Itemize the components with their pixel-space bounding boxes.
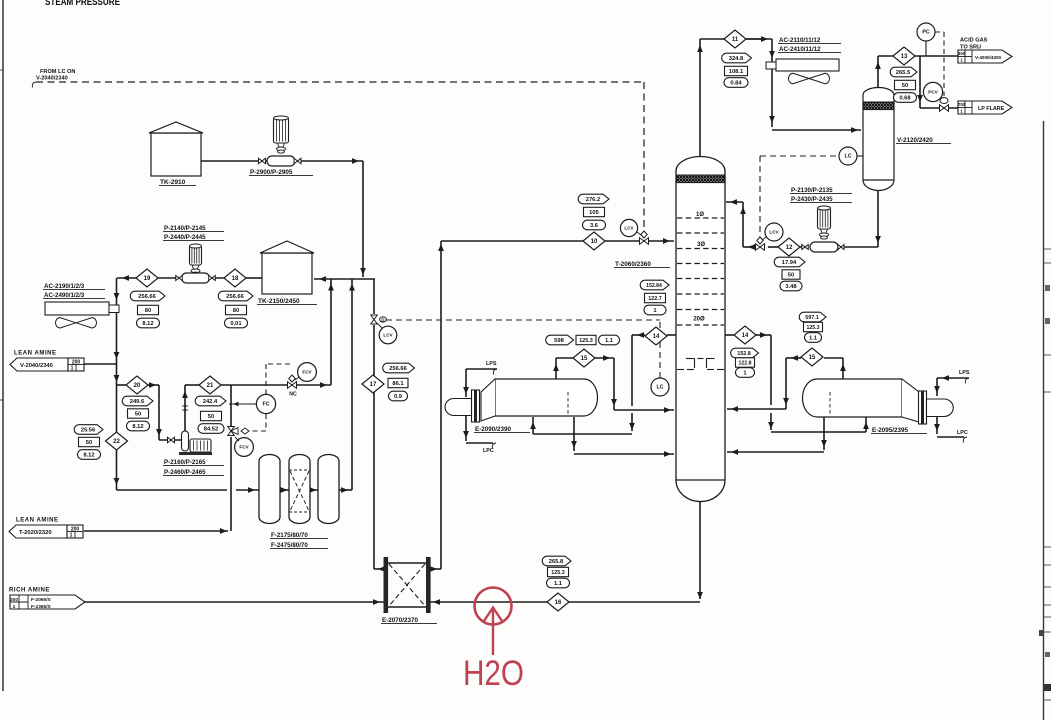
valve at P-2130 outlet: [838, 245, 844, 250]
svg-text:80: 80: [233, 308, 239, 314]
valve at P-2130 discharge: [802, 245, 809, 250]
svg-text:50: 50: [788, 273, 794, 279]
svg-text:D: D: [381, 318, 384, 323]
pump P-2160/P-2165 horizontal: [182, 431, 189, 451]
svg-text:0.01: 0.01: [230, 321, 242, 327]
valve FCV inline NC: [288, 382, 297, 389]
wire lean amine from E-2070 to LCV via FI 17: [373, 325, 375, 569]
wire FC tap: [229, 403, 258, 405]
stream data at 19: [130, 291, 165, 301]
wire rich amine main line: [85, 601, 384, 603]
valve at P-2140 discharge: [209, 276, 216, 281]
svg-text:1.1: 1.1: [605, 338, 614, 344]
svg-text:15: 15: [581, 356, 588, 362]
pump P-2900/P-2905: [274, 118, 289, 143]
svg-text:P-2160/P-2165: P-2160/P-2165: [164, 459, 206, 466]
svg-text:265.5: 265.5: [896, 70, 911, 76]
column seal pan internals: [686, 358, 695, 360]
svg-text:86.1: 86.1: [392, 381, 404, 387]
svg-text:V-2040/2340: V-2040/2340: [36, 76, 68, 82]
svg-text:F-2065/S: F-2065/S: [31, 597, 52, 603]
red H2O arrow: [492, 608, 494, 655]
stream data at 14 right: [731, 348, 759, 358]
pump P-2130/P-2135: [818, 208, 831, 229]
svg-text:AC-2190/1/2/3: AC-2190/1/2/3: [44, 283, 85, 290]
svg-text:125.3: 125.3: [579, 338, 593, 344]
wire E-2090 lean outlet to column: [573, 417, 575, 451]
wire LPS to E-2090: [493, 369, 497, 375]
stream data at 15 left row: [546, 335, 574, 345]
svg-text:LCV: LCV: [383, 333, 393, 338]
filter F-2180 vessel 2 with internals: [289, 455, 310, 524]
filter F-2170 vessel 3: [318, 455, 339, 524]
signal dashed line column LC to lean LCV: [659, 320, 661, 378]
svg-text:LCV: LCV: [624, 226, 634, 231]
wire lean amine down via air cooler AC-2190: [116, 278, 118, 362]
stream data at 12: [774, 257, 805, 267]
svg-text:50: 50: [902, 83, 908, 89]
svg-text:0.84: 0.84: [730, 81, 742, 87]
svg-text:TK-2910: TK-2910: [160, 179, 186, 186]
flow diamond 22: [106, 432, 128, 450]
wire column feed line: [441, 240, 674, 242]
svg-text:LEAN AMINE: LEAN AMINE: [14, 351, 57, 357]
svg-text:3.48: 3.48: [785, 284, 797, 290]
svg-text:P-2130/P-2135: P-2130/P-2135: [791, 187, 833, 194]
svg-text:276.2: 276.2: [586, 197, 601, 203]
svg-text:3Ø: 3Ø: [697, 242, 705, 248]
svg-text:0.68: 0.68: [899, 96, 911, 102]
svg-text:152.8: 152.8: [737, 351, 751, 357]
svg-text:19: 19: [144, 276, 151, 282]
wire filters inlet: [117, 489, 228, 491]
svg-text:V-2040/2340: V-2040/2340: [20, 363, 53, 369]
svg-text:20Ø: 20Ø: [693, 317, 705, 323]
svg-text:FC: FC: [263, 402, 270, 408]
svg-text:700: 700: [958, 102, 966, 107]
flow diamond 11: [724, 30, 746, 48]
svg-text:22: 22: [113, 439, 120, 445]
svg-text:50: 50: [86, 440, 92, 446]
svg-text:256.66: 256.66: [226, 294, 245, 300]
flow diamond 14 right: [734, 326, 756, 344]
wire column draw to E-2090 left: [667, 334, 676, 336]
tank TK-2150/2450: [262, 253, 312, 294]
title block right edge: [1043, 121, 1045, 720]
svg-text:11: 11: [732, 37, 739, 43]
svg-text:V-2120/2420: V-2120/2420: [897, 137, 933, 144]
svg-text:FROM LC ON: FROM LC ON: [40, 69, 75, 75]
svg-text:TK-2150/2450: TK-2150/2450: [258, 298, 300, 305]
wire V-2120 bottoms to pump P-2130: [877, 190, 879, 247]
wire TK-2910 pump discharge: [201, 160, 363, 162]
red H2O annotation circle: [475, 588, 512, 625]
kettle reboiler E-2090/2390: [495, 379, 598, 416]
svg-text:1.1: 1.1: [554, 581, 563, 587]
svg-text:242.4: 242.4: [203, 399, 218, 405]
signal dashed line PC to PCV: [935, 31, 944, 33]
instrument PCV bubble: [923, 82, 942, 101]
svg-text:0.9: 0.9: [394, 394, 403, 400]
svg-text:152.84: 152.84: [646, 283, 662, 289]
svg-text:105: 105: [589, 210, 599, 216]
connector lean amine from T-2020/2320: [9, 525, 67, 538]
valve at P-2160 suction: [168, 437, 175, 443]
stream data at 16: [542, 556, 571, 566]
wire TK-2150 outlet through pumps P-2140: [246, 277, 262, 279]
angle valve LCV lean amine: [371, 315, 378, 324]
svg-text:14: 14: [742, 333, 749, 339]
wire column overhead: [699, 39, 701, 162]
svg-text:LPC: LPC: [483, 448, 494, 454]
wire column draw to E-2095 right: [725, 334, 735, 336]
wire filter outlet riser: [351, 279, 353, 490]
svg-text:8.12: 8.12: [132, 424, 143, 430]
svg-text:256.66: 256.66: [138, 294, 157, 300]
stream data at 17: [383, 363, 415, 373]
instrument PC bubble: [917, 23, 935, 41]
svg-text:20: 20: [134, 383, 141, 389]
svg-text:FCV: FCV: [302, 370, 312, 375]
svg-text:AC-2110/11/12: AC-2110/11/12: [779, 37, 821, 44]
stream data at 22: [74, 425, 103, 435]
svg-text:8.12: 8.12: [83, 453, 94, 459]
flow diamond 15 right: [801, 348, 823, 366]
svg-text:3.6: 3.6: [590, 223, 599, 229]
svg-text:P-2460/P-2465: P-2460/P-2465: [164, 469, 206, 476]
wire LPC from E-2090: [465, 416, 467, 441]
instrument FCV bubble bottom: [235, 438, 254, 457]
svg-text:LP FLARE: LP FLARE: [978, 106, 1005, 112]
flow diamond 12: [778, 238, 800, 256]
valve at P-2900 suction: [259, 158, 266, 164]
svg-text:597.1: 597.1: [805, 315, 819, 321]
instrument LC bubble drum: [839, 147, 857, 165]
flow diamond 19: [136, 269, 158, 287]
wire AC-2110 outlet to V-2120: [772, 129, 861, 131]
wire E-2095 vapor return: [842, 358, 844, 379]
valve at P-2900 discharge: [294, 158, 301, 164]
svg-text:18: 18: [232, 276, 239, 282]
svg-text:AC-2490/1/2/3: AC-2490/1/2/3: [44, 292, 85, 299]
stream data at 21: [195, 396, 226, 406]
svg-text:12: 12: [786, 245, 793, 251]
kettle reboiler E-2095/2395: [803, 379, 903, 417]
svg-text:LC: LC: [845, 154, 852, 160]
svg-text:200: 200: [10, 597, 18, 603]
flow diamond 15 left: [573, 349, 595, 367]
svg-text:1: 1: [13, 604, 16, 610]
signal dashed line FC loop: [266, 363, 290, 365]
svg-text:324.8: 324.8: [729, 56, 744, 62]
svg-text:80: 80: [145, 308, 151, 314]
wire through FI 21 and FCV to riser: [185, 384, 199, 386]
svg-text:84.52: 84.52: [204, 427, 219, 433]
svg-text:P-2430/P-2435: P-2430/P-2435: [791, 196, 833, 203]
svg-text:122.7: 122.7: [648, 296, 662, 302]
svg-text:17: 17: [370, 382, 377, 388]
svg-text:125.3: 125.3: [807, 325, 820, 331]
svg-text:PCV: PCV: [928, 90, 938, 95]
wire P-2160 discharge: [184, 385, 186, 433]
svg-text:LPS: LPS: [486, 361, 497, 367]
wire branch to FCV angle valve: [230, 385, 232, 426]
reflux drum V-2120/2420: [863, 88, 894, 181]
svg-text:400: 400: [958, 51, 966, 56]
svg-text:13: 13: [901, 54, 908, 60]
svg-text:1: 1: [70, 533, 73, 539]
drawing border left: [2, 0, 4, 691]
svg-text:LCV: LCV: [769, 230, 779, 235]
stream data at 20: [122, 396, 153, 406]
svg-text:17.94: 17.94: [782, 260, 797, 266]
connector LP flare: [958, 101, 1012, 114]
wire reflux to column top: [742, 202, 744, 247]
svg-text:10: 10: [591, 239, 598, 245]
svg-text:PC: PC: [922, 30, 929, 36]
svg-text:RICH AMINE: RICH AMINE: [9, 588, 50, 594]
stream data at 15 right: [799, 312, 826, 322]
flow diamond 10: [583, 232, 605, 250]
svg-text:8.12: 8.12: [142, 321, 153, 327]
stream data at 11: [722, 53, 752, 63]
svg-text:T-2020/2320: T-2020/2320: [19, 530, 52, 536]
svg-text:256.66: 256.66: [389, 366, 408, 372]
svg-text:H2O: H2O: [463, 654, 524, 693]
wire FCV riser: [330, 279, 332, 385]
wire between filters: [279, 489, 290, 491]
wire PC tap: [925, 41, 927, 56]
svg-text:E-2090/2390: E-2090/2390: [475, 426, 512, 433]
wire E-2090 vapor return: [555, 358, 557, 379]
wire LPS to E-2095: [965, 378, 969, 384]
column T-2060/2360: [676, 157, 725, 481]
flow diamond 16: [547, 593, 569, 611]
connector lean amine from V-2040/2340: [10, 358, 68, 371]
svg-text:1Ø: 1Ø: [696, 212, 704, 218]
wire lean amine header into TK-2150/2450: [314, 278, 375, 280]
svg-text:FCV: FCV: [239, 445, 249, 450]
angle valve FCV spare: [228, 427, 235, 436]
svg-text:265.8: 265.8: [549, 559, 564, 565]
flow diamond 20: [126, 376, 148, 394]
wire branch to LP flare PCV: [919, 56, 921, 108]
instrument FC bubble: [256, 394, 275, 413]
valve LCV on reflux: [756, 244, 765, 251]
valve at P-2140 suction: [176, 276, 183, 281]
svg-text:NC: NC: [289, 392, 297, 398]
svg-text:122.8: 122.8: [739, 361, 752, 367]
svg-text:LPC: LPC: [957, 430, 968, 436]
instrument FCV bubble top: [298, 363, 317, 382]
flow diamond 17: [362, 375, 384, 393]
instrument LCV bubble reflux: [765, 223, 783, 241]
instrument LCV bubble feed: [620, 219, 637, 236]
svg-text:E-2070/2370: E-2070/2370: [382, 617, 419, 624]
stream data at 13: [890, 67, 917, 77]
wire LCV riser to header: [373, 279, 375, 314]
valve PCV on flare line: [940, 105, 949, 112]
svg-text:V-4000/4300: V-4000/4300: [975, 55, 1002, 60]
svg-text:14: 14: [653, 334, 660, 340]
svg-text:F-2365/S: F-2365/S: [31, 604, 52, 610]
svg-text:50: 50: [135, 412, 141, 418]
svg-text:LEAN AMINE: LEAN AMINE: [16, 518, 59, 524]
svg-text:E-2095/2395: E-2095/2395: [872, 427, 909, 434]
stream data at 18: [218, 291, 253, 301]
svg-text:F-2475/80/70: F-2475/80/70: [271, 542, 308, 549]
svg-text:ACID GAS: ACID GAS: [960, 38, 988, 44]
flow diamond 21: [199, 376, 221, 394]
svg-text:LC: LC: [657, 385, 664, 391]
svg-text:P-2900/P-2905: P-2900/P-2905: [250, 169, 293, 176]
svg-text:125.3: 125.3: [551, 570, 565, 576]
svg-text:1.1: 1.1: [809, 336, 818, 342]
svg-text:249.6: 249.6: [130, 399, 145, 405]
instrument LCV bubble lean: [379, 326, 397, 344]
plate exchanger E-2070/2370: [384, 557, 389, 613]
wire E-2095 lean outlet to column: [823, 417, 825, 450]
wire lean amine inlet T-2020/2320: [84, 530, 228, 532]
svg-text:1: 1: [71, 366, 74, 372]
svg-text:T-2060/2360: T-2060/2360: [615, 261, 651, 268]
svg-text:598: 598: [554, 338, 564, 344]
svg-text:50: 50: [208, 414, 214, 420]
valve LCV on column feed: [640, 238, 649, 245]
wire rich amine E-2070 to column feed: [429, 568, 441, 570]
flow diamond 14 left: [645, 327, 667, 345]
wire LPC from E-2095: [936, 417, 938, 434]
wire lean amine inlet V-2040/2340: [84, 363, 117, 365]
flow diamond 13: [893, 47, 915, 65]
flow diamond 18: [224, 269, 246, 287]
svg-text:LPS: LPS: [959, 370, 970, 376]
svg-text:STEAM PRESSURE: STEAM PRESSURE: [45, 0, 120, 8]
svg-text:21: 21: [207, 383, 214, 389]
connector rich amine to filters: [10, 595, 85, 609]
wire branch to FI 20: [117, 384, 127, 386]
svg-text:108.1: 108.1: [729, 69, 744, 75]
wire column bottoms: [699, 502, 701, 599]
filter F-2175 vessel 1: [259, 455, 280, 524]
svg-text:AC-2410/11/12: AC-2410/11/12: [779, 46, 821, 53]
instrument LC bubble column: [651, 378, 669, 396]
wire V-2120 vapor to acid gas: [877, 56, 879, 89]
svg-text:F-2175/80/70: F-2175/80/70: [271, 532, 308, 539]
wire filters outlet: [338, 489, 352, 491]
stream data column left: [640, 280, 669, 290]
svg-text:25.56: 25.56: [81, 428, 96, 434]
svg-text:16: 16: [555, 600, 562, 606]
svg-text:P-2140/P-2145: P-2140/P-2145: [164, 225, 206, 232]
svg-text:P-2440/P-2445: P-2440/P-2445: [164, 234, 206, 241]
pump P-2140/P-2145: [190, 246, 202, 265]
svg-text:15: 15: [809, 355, 816, 361]
signal dashed line LC to reflux LCV: [760, 155, 841, 157]
tank TK-2910: [151, 133, 201, 176]
stream data at 10: [578, 194, 609, 204]
